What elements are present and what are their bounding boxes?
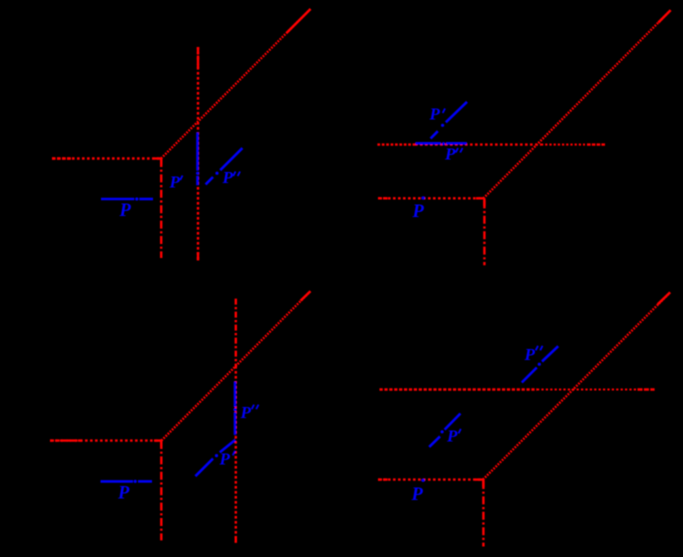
label P'' TR (444, 145, 463, 164)
svg-text:P: P (240, 403, 252, 422)
wire diagonal TL (161, 9, 311, 159)
wire diagonal BR (483, 292, 670, 479)
wire lower horizontal TR (378, 197, 483, 199)
node P' segment BR (blue diagonal) (429, 414, 460, 447)
wire horizontal axis BL (50, 439, 161, 441)
node P dot TR (422, 196, 425, 199)
svg-text:P: P (411, 485, 424, 505)
label P BL (117, 483, 130, 503)
svg-text:P: P (412, 202, 425, 222)
label P BR (411, 485, 424, 505)
label P'' BL (240, 403, 259, 422)
node P' segment TR (blue diagonal) (431, 102, 467, 139)
wire diagonal BL (161, 291, 310, 440)
label P' TR (429, 105, 446, 124)
svg-text:P: P (222, 168, 234, 187)
label P' BL (219, 450, 236, 469)
label P TR (412, 202, 425, 222)
node P'' segment TR (blue horizontal) (415, 142, 466, 145)
svg-text:P: P (119, 201, 132, 221)
wire diagonal TR (483, 10, 670, 198)
svg-text:P: P (169, 173, 181, 192)
wire lower horizontal BR (378, 478, 483, 480)
wire horizontal axis TL (52, 157, 162, 159)
wire upper horizontal axis BR (380, 388, 655, 390)
node P'' segment BL (blue vertical) (234, 382, 237, 435)
svg-text:P: P (117, 483, 130, 503)
label P' TL (169, 173, 183, 192)
svg-text:P: P (429, 105, 441, 124)
node P' segment TL (blue vertical) (196, 132, 199, 185)
wire vertical ordinal TL (197, 47, 199, 261)
label P' BR (446, 427, 461, 446)
wire vertical dash-dot TR (476, 198, 484, 265)
wire vertical dash-dot BR (475, 480, 483, 547)
label P TL (119, 201, 132, 221)
svg-text:P: P (446, 427, 458, 446)
node P'' segment BR (blue diagonal) (522, 346, 558, 382)
node P segment BL (blue horizontal) (101, 480, 153, 483)
label P'' TL (222, 168, 241, 187)
svg-text:P: P (524, 345, 536, 364)
wire upper horizontal axis TR (377, 143, 606, 145)
wire vertical dash-dot BL at corner (154, 441, 162, 541)
wire vertical ordinal BL (235, 299, 237, 543)
wire vertical dash-dot TL at corner (160, 159, 162, 259)
node P' segment BL (blue diagonal) (195, 440, 235, 476)
svg-text:P: P (219, 450, 231, 469)
label P'' BR (524, 345, 543, 364)
svg-text:P: P (444, 145, 456, 164)
node P dot BR (421, 479, 424, 482)
node P segment TL (blue horizontal) (101, 198, 153, 201)
node P'' segment TL (blue diagonal) (206, 148, 243, 184)
